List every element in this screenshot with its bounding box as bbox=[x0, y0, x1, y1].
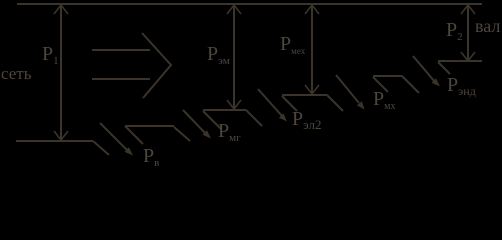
wire loss4 left side bbox=[327, 95, 343, 111]
wire loss4 right side bbox=[373, 77, 388, 92]
arrow loss2 center shaft bbox=[183, 110, 206, 134]
svg-text:P2: P2 bbox=[446, 19, 463, 43]
arrow loss5 center shaft bbox=[413, 56, 435, 82]
wire loss3 left side bbox=[246, 110, 262, 126]
svg-text:Pмех: Pмех bbox=[280, 33, 306, 56]
block arrow lower line bbox=[92, 78, 150, 80]
wire loss3 right side bbox=[282, 96, 297, 111]
wire edge3 bbox=[203, 109, 246, 111]
arrow P1 shaft bbox=[60, 5, 62, 139]
arrow P2 head up bbox=[461, 5, 475, 14]
wire edge4 bbox=[282, 94, 327, 96]
wire loss1 right side bbox=[125, 126, 143, 144]
arrow loss1 head bbox=[125, 147, 134, 155]
svg-text:Pэл2: Pэл2 bbox=[292, 108, 321, 132]
arrow Pmex head up bbox=[305, 5, 319, 14]
wire loss1 left side bbox=[93, 141, 109, 155]
arrow P1 head down bbox=[54, 131, 68, 140]
wire edge1 bbox=[16, 140, 93, 142]
block arrow chevron bbox=[142, 33, 171, 98]
arrow Pem head up bbox=[227, 5, 241, 14]
svg-text:Pэм: Pэм bbox=[207, 43, 230, 67]
svg-text:P1: P1 bbox=[42, 43, 59, 67]
arrow loss4 head bbox=[357, 101, 365, 109]
svg-text:Pэнд: Pэнд bbox=[447, 74, 476, 98]
arrow P2 head down bbox=[461, 52, 475, 61]
block arrow upper line bbox=[92, 49, 150, 51]
wire top line bbox=[17, 3, 482, 5]
arrow Pem head down bbox=[227, 100, 241, 109]
svg-text:Pмх: Pмх bbox=[373, 88, 395, 112]
arrow Pem shaft bbox=[233, 5, 235, 108]
wire edge2 bbox=[125, 125, 174, 127]
wire loss2 left side bbox=[174, 127, 190, 141]
arrow P2 shaft bbox=[467, 5, 469, 60]
arrow loss5 head bbox=[432, 78, 441, 86]
arrow loss3 center shaft bbox=[258, 89, 282, 116]
arrow Pmex shaft bbox=[311, 5, 313, 93]
arrow P1 head up bbox=[54, 5, 68, 14]
arrow loss1 center shaft bbox=[100, 123, 128, 151]
svg-text:Pмг: Pмг bbox=[218, 120, 241, 144]
svg-text:Pв: Pв bbox=[143, 145, 159, 166]
wire edge5 bbox=[373, 75, 402, 77]
arrow loss2 head bbox=[203, 130, 212, 138]
wire edge6 bbox=[438, 60, 482, 62]
wire loss5 right side bbox=[438, 62, 450, 74]
arrow loss3 head bbox=[279, 113, 287, 121]
arrow Pmex head down bbox=[305, 85, 319, 94]
wire loss2 right side bbox=[203, 111, 221, 129]
svg-text:вал: вал bbox=[475, 16, 500, 36]
wire loss5 left side bbox=[402, 76, 419, 93]
svg-text:сеть: сеть bbox=[1, 64, 32, 83]
arrow loss4 center shaft bbox=[336, 75, 359, 103]
